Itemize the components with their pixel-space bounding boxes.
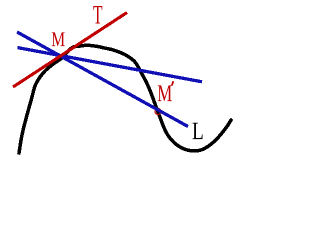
label T [93,6,102,24]
curve (cubic function graph) [19,45,231,153]
prime mark of M' [172,81,173,85]
tangent line T at M (red) [13,13,127,88]
label M' [158,85,172,101]
secant line L through M and M' (blue) [17,32,188,127]
second secant line through M (blue, shallow) [18,48,203,82]
label L [193,123,203,139]
label M [52,32,65,46]
circle marker at point M' [155,109,161,115]
